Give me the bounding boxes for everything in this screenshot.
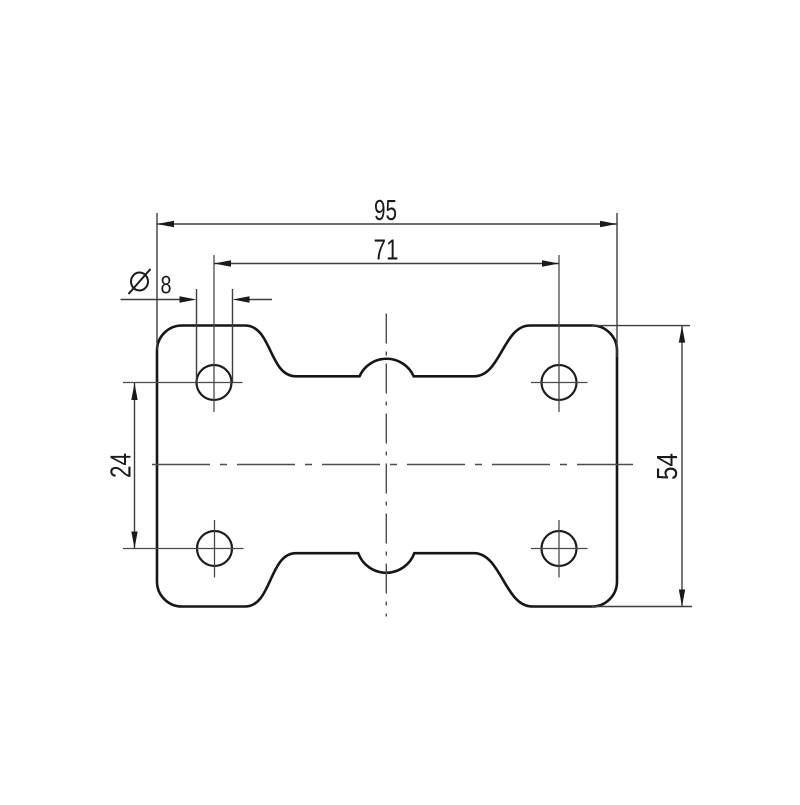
svg-text:8: 8 <box>161 272 172 300</box>
ext line hole edge left <box>196 289 198 383</box>
hole bottom-right <box>542 531 577 566</box>
arrow 95 left <box>157 221 174 227</box>
crosshair h top-right hole <box>531 382 588 384</box>
hole top-left <box>197 365 232 400</box>
hole bottom-left <box>197 531 232 566</box>
ext line 95 left <box>156 213 158 350</box>
arrow 24 bottom <box>131 532 137 549</box>
dim line 54 <box>681 326 683 607</box>
dim line d8 right <box>249 299 272 301</box>
centerline horizontal <box>152 464 633 466</box>
svg-text:54: 54 <box>652 453 684 480</box>
arrow 54 top <box>679 326 685 343</box>
arrow 71 left <box>214 260 231 266</box>
diameter symbol <box>129 269 151 294</box>
arrow 71 right <box>542 260 559 266</box>
crosshair v bottom-right hole <box>558 520 560 578</box>
dim line 24 <box>134 383 136 549</box>
dim line 71 <box>214 263 559 265</box>
ext line 54 bottom <box>592 606 692 608</box>
crosshair h bottom-right hole <box>531 548 588 550</box>
crosshair h top-left hole / ext 24 top <box>123 382 243 384</box>
arrow d8 left <box>180 296 197 302</box>
arrow 24 top <box>131 383 137 400</box>
dim line 95 <box>157 223 617 225</box>
ext line hole edge right <box>232 289 234 383</box>
crosshair h bottom-left hole / ext 24 bottom <box>123 548 244 550</box>
crosshair v + ext 71 right (top-right hole) <box>558 255 560 412</box>
svg-text:71: 71 <box>374 235 399 267</box>
dim line d8 left <box>121 299 182 301</box>
crosshair v + ext 71 left (top-left hole) <box>213 255 215 412</box>
arrow 95 right <box>600 221 617 227</box>
arrow 54 bottom <box>679 590 685 607</box>
ext line 95 right <box>616 213 618 357</box>
svg-text:95: 95 <box>374 195 397 227</box>
centerline vertical <box>385 314 387 617</box>
hole top-right <box>542 365 577 400</box>
plate outline <box>157 326 617 607</box>
svg-text:24: 24 <box>106 453 138 478</box>
crosshair v bottom-left hole <box>214 520 216 578</box>
arrow d8 right <box>233 296 250 302</box>
ext line 54 top <box>592 325 690 327</box>
